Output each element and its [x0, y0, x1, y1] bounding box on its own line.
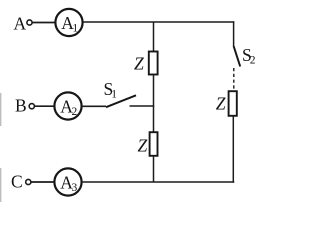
impedance Z (lower middle)	[150, 132, 158, 156]
terminal B	[29, 104, 34, 109]
wire A2 to switch S1	[81, 105, 106, 107]
impedance Z (upper middle)	[149, 52, 158, 75]
wire A3 to bottom-right corner	[82, 181, 235, 183]
wire right branch from top corner	[233, 21, 235, 46]
wire A terminal to ammeter A1	[32, 22, 56, 24]
wire middle branch between impedances	[153, 75, 155, 133]
switch S1 blade	[106, 95, 136, 107]
scan smear left edge lower	[0, 168, 2, 202]
svg-text:Z: Z	[138, 136, 148, 156]
ammeter A2	[54, 92, 81, 119]
svg-text:Z: Z	[134, 54, 144, 74]
wire right branch lower	[232, 116, 234, 183]
switch S2 blade	[234, 46, 241, 67]
wire S2 contact to impedance (dashed in scan)	[233, 68, 235, 92]
wire C terminal to ammeter A3	[31, 181, 55, 183]
wire S1 contact to middle branch	[130, 105, 155, 107]
svg-text:B: B	[15, 96, 27, 116]
svg-text:A: A	[14, 13, 27, 33]
wire middle branch lower	[153, 156, 155, 182]
impedance Z (right)	[229, 91, 237, 116]
wire middle branch upper	[153, 22, 155, 52]
terminal C	[26, 179, 31, 184]
terminal A	[27, 20, 32, 25]
wire A1 to top-right corner	[82, 21, 234, 23]
wire B terminal to ammeter A2	[35, 105, 55, 107]
ammeter A1	[55, 9, 82, 36]
scan smear left edge upper	[0, 93, 2, 126]
svg-text:C: C	[11, 172, 23, 192]
ammeter A3	[54, 168, 81, 195]
svg-text:Z: Z	[216, 94, 226, 114]
